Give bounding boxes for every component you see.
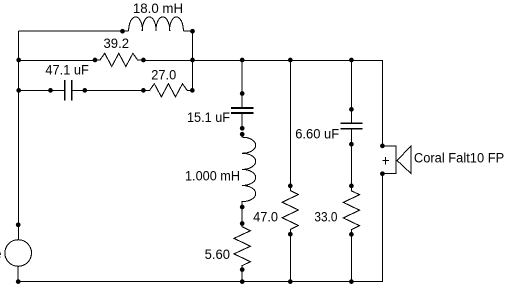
svg-text:18.0 mH: 18.0 mH	[133, 1, 183, 16]
svg-text:47.1 uF: 47.1 uF	[45, 63, 89, 78]
inductor 1.000 mH	[242, 134, 255, 223]
junction dots top row	[120, 29, 125, 34]
junction dots speaker	[380, 144, 385, 149]
junction dots branch2	[288, 184, 293, 189]
inductor 18.0 mH	[123, 17, 193, 31]
voltage source e	[5, 240, 32, 267]
junction dots branch3	[349, 107, 354, 112]
resistor 39.2	[95, 53, 143, 66]
wire branch1 bottom	[241, 270, 243, 282]
wire branch2 bottom	[289, 234, 291, 281]
junction dots main rail	[16, 58, 21, 63]
wire inductor right drop	[192, 31, 194, 90]
wire branch3 bottom	[350, 234, 352, 281]
wire top rail	[19, 30, 123, 32]
svg-text:5.60: 5.60	[205, 247, 230, 262]
svg-text:e: e	[0, 246, 2, 261]
junction dots branch1	[240, 91, 245, 96]
svg-text:15.1 uF: 15.1 uF	[187, 110, 230, 125]
capacitor 15.1 uF	[241, 60, 243, 128]
resistor 5.60	[234, 224, 250, 270]
svg-text:47.0: 47.0	[253, 209, 278, 224]
svg-text:27.0: 27.0	[151, 67, 176, 82]
speaker cone triangle	[397, 146, 411, 174]
junction dots bottom rail	[240, 279, 245, 284]
wire bottom rail	[18, 174, 382, 282]
wire branch2 top	[289, 60, 291, 186]
wire source bottom lead	[17, 266, 19, 281]
speaker plus sign	[382, 157, 389, 164]
capacitor 6.60 uF	[350, 60, 352, 144]
junction dots source	[16, 222, 21, 227]
svg-text:33.0: 33.0	[314, 210, 337, 225]
svg-text:Coral Falt10 FP: Coral Falt10 FP	[414, 151, 504, 166]
speaker Coral Falt10 FP terminals	[382, 146, 396, 174]
svg-text:6.60 uF: 6.60 uF	[295, 126, 339, 141]
svg-text:39.2: 39.2	[104, 36, 130, 51]
wire branch3 middle	[350, 144, 352, 186]
wire left rail	[18, 31, 20, 240]
resistor 47.0	[282, 186, 298, 234]
wire speaker top drop	[381, 60, 383, 146]
wire main rail	[19, 59, 383, 61]
resistor 27.0	[143, 84, 192, 97]
junction dots 47.1uF row	[16, 88, 21, 93]
resistor 33.0	[343, 186, 359, 235]
capacitor 47.1 uF	[19, 89, 144, 91]
svg-text:1.000 mH: 1.000 mH	[185, 169, 240, 184]
